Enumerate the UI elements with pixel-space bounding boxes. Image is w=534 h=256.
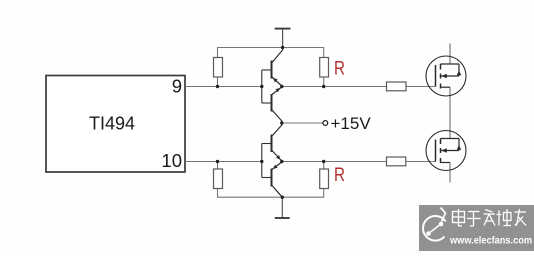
supply bar top [275, 28, 291, 30]
svg-text:www.elecfans.com: www.elecfans.com [449, 236, 532, 247]
resistor lower-left [214, 169, 223, 189]
wire upper-right resistor to output line [323, 77, 325, 87]
+15V terminal circle [323, 121, 328, 126]
transistor Q1 (upper pair, top) [262, 50, 283, 86]
watermark chinese glyphs (drawn) [453, 209, 527, 226]
IC U1 TI494 box [46, 76, 185, 173]
svg-text:R: R [334, 165, 345, 186]
top rail wire [218, 48, 324, 58]
junction: ground / bottom rail [281, 196, 284, 199]
svg-text:R: R [334, 59, 345, 80]
ground bar [275, 217, 290, 219]
junction: pin10 line / lower-left resistor [216, 160, 219, 163]
wire MOSFET1 drain up [449, 44, 451, 65]
svg-text:10: 10 [161, 150, 182, 171]
junction: lower output / resistor R [322, 160, 325, 163]
junction: supply stem / top rail [281, 46, 284, 49]
bottom rail wire [218, 189, 324, 198]
base bracket lower pair [261, 144, 263, 178]
svg-text:TI494: TI494 [89, 114, 135, 134]
wire MOSFET2 source down [449, 163, 451, 183]
wire pin9 to base node [185, 86, 262, 88]
svg-text:9: 9 [172, 75, 182, 96]
wire upper-left resistor to pin9 line [217, 77, 219, 87]
watermark badge elecfans [419, 205, 534, 251]
svg-text:+15V: +15V [331, 114, 372, 133]
gate resistor lower [387, 157, 406, 166]
MOSFET M2 (lower) [426, 131, 466, 171]
transistor Q4 (lower pair, bottom) [262, 162, 283, 197]
base bracket upper pair [261, 70, 263, 103]
junction: pin9 line / upper-left resistor [216, 85, 219, 88]
node: lower emitter output [280, 160, 283, 163]
node: upper emitter output [280, 85, 283, 88]
wire MOSFET1 source to MOSFET2 drain [449, 87, 451, 138]
junction: pin9 line / base bracket [260, 85, 263, 88]
resistor R (lower-right) [320, 169, 329, 189]
node: +15V junction [280, 121, 283, 124]
ground stem [281, 197, 283, 217]
junction: pin10 line / base bracket [260, 160, 263, 163]
gate resistor upper [387, 82, 407, 91]
output wire 2 (emitters to MOSFET2 gate) [282, 161, 436, 163]
wire lower-right resistor drop [323, 162, 325, 170]
resistor upper-left [214, 58, 223, 78]
transistor Q2 (upper pair, bottom) [262, 87, 282, 123]
wire pin10 to base node [185, 161, 262, 163]
junction: upper output / resistor R [322, 85, 325, 88]
+15V wire [282, 122, 323, 124]
transistor Q3 (lower pair, top) [262, 123, 282, 161]
resistor R (upper-right) [320, 58, 329, 78]
MOSFET M1 (upper) [426, 56, 466, 96]
output wire 1 (emitters to MOSFET1 gate) [282, 86, 436, 88]
wire lower-left resistor drop [217, 162, 219, 170]
supply stem wire [282, 29, 284, 51]
